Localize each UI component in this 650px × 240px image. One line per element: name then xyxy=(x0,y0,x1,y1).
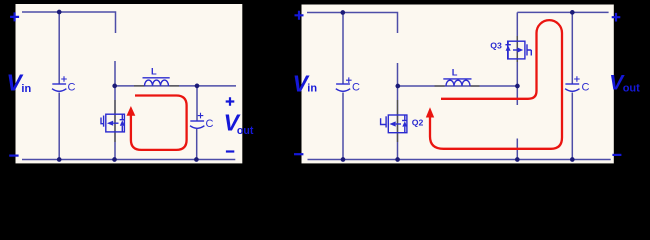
svg-text:Q2: Q2 xyxy=(412,118,424,128)
svg-text:out: out xyxy=(623,83,640,95)
svg-text:in: in xyxy=(307,83,317,95)
svg-text:L: L xyxy=(151,67,157,77)
svg-text:C: C xyxy=(68,81,76,93)
svg-text:C: C xyxy=(352,81,360,93)
svg-text:C: C xyxy=(206,118,214,130)
svg-text:L: L xyxy=(452,67,458,77)
svg-text:C: C xyxy=(582,81,590,93)
svg-text:Q3: Q3 xyxy=(490,40,502,50)
svg-text:out: out xyxy=(237,125,254,137)
svg-text:in: in xyxy=(21,83,31,95)
